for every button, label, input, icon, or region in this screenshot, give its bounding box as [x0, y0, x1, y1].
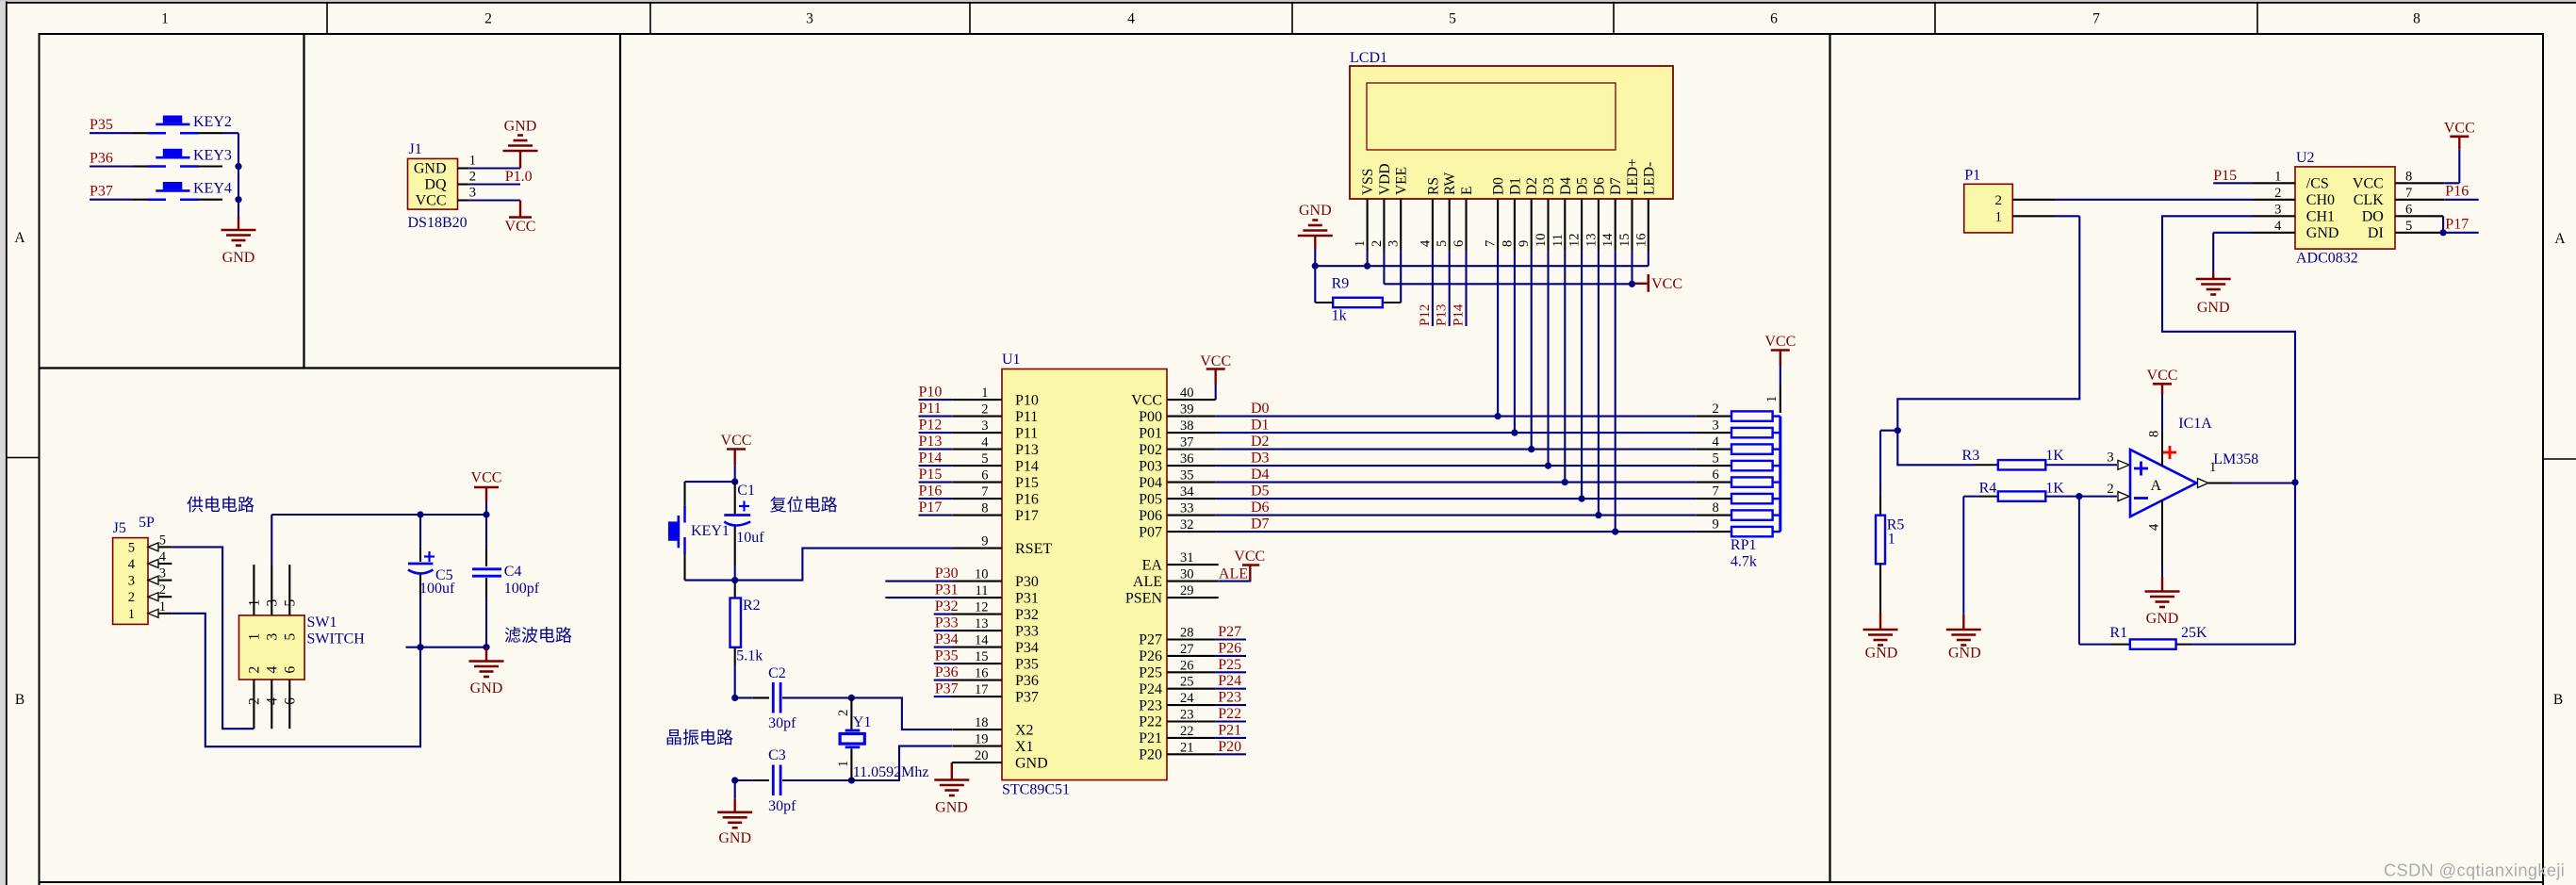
svg-text:5: 5 [1435, 240, 1450, 247]
svg-text:P24: P24 [1218, 673, 1241, 689]
node D2 [1251, 434, 1270, 450]
ground [1946, 497, 1981, 662]
svg-text:1: 1 [246, 599, 262, 607]
svg-text:KEY2: KEY2 [193, 114, 232, 130]
svg-text:1k: 1k [1332, 308, 1347, 324]
row band dividers [7, 458, 2576, 460]
R4 value [2045, 481, 2064, 497]
svg-text:4: 4 [981, 435, 989, 451]
R3 value [2045, 448, 2064, 464]
node P14 [1452, 251, 1467, 327]
capacitor C2 [735, 665, 852, 731]
svg-text:D1: D1 [1251, 418, 1270, 434]
svg-text:P24: P24 [1139, 681, 1162, 697]
svg-text:5: 5 [1449, 11, 1456, 27]
svg-text:/CS: /CS [2306, 176, 2329, 192]
pushbutton KEY3 [133, 148, 232, 167]
svg-text:P23: P23 [1218, 690, 1241, 706]
svg-text:P34: P34 [1015, 640, 1039, 656]
power VCC [2147, 368, 2178, 432]
svg-text:供电电路: 供电电路 [187, 496, 254, 515]
svg-text:D2: D2 [1251, 434, 1270, 450]
svg-text:14: 14 [1600, 233, 1616, 247]
svg-text:7: 7 [1484, 240, 1499, 247]
svg-text:GND: GND [470, 680, 503, 697]
svg-text:2: 2 [2107, 482, 2113, 497]
node P15 [919, 467, 953, 483]
svg-text:KEY4: KEY4 [193, 181, 232, 197]
svg-text:1: 1 [128, 607, 135, 622]
svg-text:4: 4 [2147, 523, 2162, 531]
node P31 [885, 582, 958, 598]
svg-text:P14: P14 [919, 451, 943, 467]
svg-text:1K: 1K [2045, 481, 2064, 497]
svg-text:D3: D3 [1251, 451, 1270, 467]
ground [934, 762, 969, 815]
node D3 [1251, 451, 1270, 467]
node P16 [2444, 184, 2479, 200]
svg-text:C4: C4 [504, 564, 522, 580]
svg-text:D7: D7 [1608, 177, 1624, 195]
wire R9 to VSS rail [1315, 266, 1333, 303]
svg-text:8: 8 [981, 501, 988, 516]
svg-text:3: 3 [264, 599, 280, 607]
svg-text:RP1: RP1 [1731, 537, 1757, 553]
svg-text:X2: X2 [1015, 722, 1034, 738]
LCD module LCD1 [1350, 50, 1673, 251]
node P35 [90, 117, 113, 133]
svg-text:6: 6 [1712, 467, 1718, 483]
svg-text:4: 4 [128, 557, 136, 572]
wire LCD D1 [1514, 251, 1516, 434]
wire CH1 to opamp output node [2162, 216, 2295, 644]
svg-text:34: 34 [1180, 484, 1194, 500]
svg-text:D2: D2 [1524, 177, 1540, 195]
junction [1528, 446, 1534, 452]
svg-text:D3: D3 [1541, 177, 1557, 195]
wire D2 [1216, 449, 1697, 451]
svg-text:EA: EA [1142, 557, 1163, 573]
svg-text:P16: P16 [919, 483, 943, 500]
node P12 [1418, 251, 1433, 327]
svg-text:DO: DO [2362, 209, 2384, 225]
svg-text:VCC: VCC [2353, 176, 2384, 192]
node D6 [1251, 500, 1270, 516]
svg-text:P04: P04 [1139, 475, 1162, 491]
svg-text:D7: D7 [1251, 516, 1270, 533]
capacitor C4 [472, 515, 540, 647]
svg-text:36: 36 [1180, 451, 1194, 467]
svg-text:P00: P00 [1139, 409, 1162, 425]
svg-text:3: 3 [1712, 418, 1718, 434]
svg-text:3: 3 [806, 11, 813, 27]
svg-text:P25: P25 [1139, 665, 1162, 681]
svg-text:GND: GND [1299, 203, 1332, 219]
svg-text:30: 30 [1180, 567, 1194, 582]
wire VEE to R9 [1383, 251, 1401, 303]
node P23 [1216, 690, 1246, 706]
junction [1511, 430, 1518, 436]
svg-text:31: 31 [1180, 550, 1194, 565]
wire DO to DI [2442, 216, 2444, 233]
svg-text:P27: P27 [1139, 632, 1162, 648]
svg-text:B: B [2553, 692, 2563, 708]
node P17 [919, 500, 953, 516]
svg-text:A: A [14, 230, 25, 246]
svg-text:KEY3: KEY3 [193, 148, 232, 164]
svg-text:100pf: 100pf [504, 581, 540, 597]
svg-text:5: 5 [282, 599, 298, 607]
svg-text:P17: P17 [919, 500, 943, 516]
svg-text:P07: P07 [1139, 524, 1162, 540]
wire D0 [1216, 416, 1697, 418]
svg-text:P30: P30 [935, 565, 959, 582]
svg-text:P37: P37 [935, 681, 959, 697]
svg-text:3: 3 [469, 186, 476, 201]
svg-text:27: 27 [1180, 642, 1194, 657]
svg-text:GND: GND [2306, 225, 2339, 241]
wire C3 to X1 [851, 746, 952, 780]
ground [222, 217, 256, 266]
svg-text:P33: P33 [935, 615, 959, 631]
wire P1 pin2 to CH0 [2055, 199, 2253, 201]
svg-text:29: 29 [1180, 583, 1194, 598]
svg-text:2: 2 [1995, 193, 2003, 208]
svg-text:GND: GND [1865, 646, 1898, 662]
IC U2 ADC0832 [2253, 150, 2444, 267]
svg-text:11: 11 [976, 583, 989, 598]
svg-text:15: 15 [1617, 234, 1633, 248]
column band dividers [327, 3, 2257, 34]
resistor R1 [2109, 625, 2175, 649]
svg-text:D6: D6 [1591, 177, 1607, 195]
svg-text:25: 25 [1180, 675, 1194, 690]
svg-text:P34: P34 [935, 631, 959, 647]
svg-text:D0: D0 [1491, 177, 1507, 195]
wire LCD D0 [1497, 251, 1499, 417]
svg-text:8: 8 [1712, 500, 1718, 516]
section divider keys/J1 [303, 34, 304, 369]
node P16 [919, 483, 953, 500]
junction [235, 163, 241, 170]
pushbutton KEY4 [133, 181, 232, 200]
wire D7 [1216, 531, 1697, 533]
power VCC [471, 470, 502, 516]
svg-text:GND: GND [1015, 755, 1048, 771]
svg-text:7: 7 [2405, 186, 2412, 201]
svg-text:4: 4 [1418, 239, 1433, 247]
junction [1595, 512, 1601, 518]
node P25 [1216, 657, 1246, 673]
ground [1863, 564, 1898, 661]
wire LCD D4 [1564, 251, 1566, 483]
node P32 [934, 598, 959, 615]
junction [731, 777, 738, 783]
svg-text:R4: R4 [1979, 481, 1997, 497]
svg-text:P1.0: P1.0 [505, 169, 533, 185]
svg-text:P12: P12 [919, 418, 943, 434]
Y1 value [853, 764, 929, 780]
svg-text:J5: J5 [113, 520, 126, 536]
junction [1579, 496, 1585, 502]
svg-text:1: 1 [1995, 209, 2003, 224]
svg-text:33: 33 [1180, 501, 1194, 516]
svg-text:P20: P20 [1218, 739, 1241, 755]
svg-text:35: 35 [1180, 468, 1194, 483]
node P35 [934, 648, 959, 664]
connector J1 [408, 141, 477, 231]
wire LCD D3 [1547, 251, 1549, 467]
svg-text:SWITCH: SWITCH [307, 631, 366, 647]
svg-text:5: 5 [282, 633, 298, 641]
svg-text:RW: RW [1442, 172, 1458, 195]
svg-text:VCC: VCC [471, 470, 502, 486]
svg-text:R9: R9 [1332, 276, 1350, 292]
svg-text:U2: U2 [2296, 150, 2315, 166]
wire R3 to pin3 [2045, 464, 2117, 466]
svg-text:VCC: VCC [416, 193, 447, 209]
svg-text:2: 2 [836, 710, 851, 716]
node P13 [919, 434, 953, 450]
svg-text:P35: P35 [90, 117, 113, 133]
svg-text:1: 1 [2274, 169, 2281, 184]
svg-text:D5: D5 [1251, 483, 1270, 500]
svg-text:3: 3 [128, 574, 135, 589]
svg-text:3: 3 [1386, 240, 1402, 247]
junction [1895, 427, 1901, 434]
ground [2196, 233, 2253, 316]
svg-text:16: 16 [1633, 234, 1649, 248]
svg-text:E: E [1459, 187, 1475, 195]
svg-text:1: 1 [1764, 396, 1780, 402]
svg-text:10: 10 [975, 567, 989, 582]
svg-text:CLK: CLK [2354, 192, 2384, 208]
svg-text:P26: P26 [1139, 648, 1162, 664]
node D4 [1251, 467, 1270, 483]
svg-text:20: 20 [975, 748, 989, 763]
svg-text:P11: P11 [1015, 425, 1038, 441]
IC U1 STC89C51 [952, 352, 1219, 798]
svg-text:8: 8 [2413, 11, 2420, 27]
svg-text:6: 6 [282, 697, 298, 705]
svg-text:GND: GND [504, 119, 537, 135]
wire D5 [1216, 498, 1697, 500]
junction [1364, 263, 1370, 270]
wire VSS rail [1315, 251, 1649, 267]
svg-text:4: 4 [1127, 11, 1135, 27]
svg-text:11: 11 [1551, 234, 1566, 247]
node P21 [1216, 722, 1246, 738]
svg-text:16: 16 [975, 666, 989, 681]
svg-text:2: 2 [246, 666, 262, 674]
switch SW1 [239, 565, 366, 729]
wire R1 to output node [2176, 644, 2295, 646]
svg-text:5.1k: 5.1k [736, 648, 763, 664]
R1 value [2181, 625, 2207, 641]
pushbutton KEY1 [668, 482, 730, 580]
wire P36 [90, 165, 133, 167]
node P30 [885, 565, 958, 582]
svg-text:19: 19 [975, 732, 989, 747]
junction [848, 777, 855, 783]
R5 value [1888, 532, 1895, 548]
svg-text:P26: P26 [1218, 640, 1241, 656]
svg-text:SW1: SW1 [307, 615, 337, 631]
svg-text:7: 7 [981, 484, 988, 500]
svg-text:P16: P16 [1015, 491, 1039, 507]
junction [848, 695, 855, 701]
junction [1312, 263, 1319, 270]
svg-text:D4: D4 [1251, 467, 1270, 483]
svg-text:J1: J1 [409, 141, 422, 157]
svg-text:5: 5 [1712, 451, 1718, 467]
capacitor C1 [724, 482, 764, 580]
svg-text:P15: P15 [919, 467, 943, 483]
svg-text:1: 1 [2209, 460, 2216, 475]
svg-text:P30: P30 [1015, 574, 1039, 590]
wire divider to R5 [1880, 431, 1897, 516]
svg-text:5: 5 [2405, 219, 2412, 234]
resistor R5 [1876, 516, 1904, 565]
svg-text:6: 6 [1452, 240, 1467, 247]
wire P37 [90, 199, 133, 201]
watermark [2384, 861, 2565, 880]
svg-text:9: 9 [1712, 517, 1718, 533]
svg-text:P31: P31 [935, 582, 959, 598]
svg-text:ALE: ALE [1133, 574, 1162, 590]
svg-text:P01: P01 [1139, 425, 1162, 441]
node P34 [934, 631, 959, 647]
svg-text:P10: P10 [1015, 392, 1039, 408]
svg-text:P33: P33 [1015, 623, 1039, 639]
junction [2440, 229, 2447, 236]
svg-text:23: 23 [1180, 708, 1194, 723]
svg-text:6: 6 [282, 666, 298, 674]
svg-text:21: 21 [1180, 740, 1194, 755]
svg-text:D4: D4 [1558, 177, 1574, 195]
svg-text:P36: P36 [1015, 673, 1039, 689]
svg-text:GND: GND [222, 250, 255, 266]
svg-text:D1: D1 [1507, 177, 1523, 195]
svg-text:12: 12 [1567, 234, 1583, 248]
svg-text:P35: P35 [935, 648, 959, 664]
svg-text:KEY1: KEY1 [691, 523, 730, 539]
svg-text:10uf: 10uf [736, 530, 764, 546]
svg-text:C3: C3 [768, 747, 786, 763]
node P24 [1216, 673, 1246, 689]
junction [483, 511, 489, 517]
svg-text:2: 2 [246, 697, 262, 705]
svg-text:P11: P11 [1015, 409, 1038, 425]
node P36 [934, 664, 959, 680]
svg-text:2: 2 [1370, 240, 1385, 247]
column numbers [161, 11, 2420, 27]
R2 value [736, 648, 763, 664]
svg-text:28: 28 [1180, 626, 1194, 641]
connector P1 [1964, 168, 2055, 233]
svg-text:2: 2 [981, 402, 988, 418]
svg-text:CH1: CH1 [2306, 209, 2335, 225]
svg-text:VEE: VEE [1394, 167, 1410, 195]
wire reset rail to RSET [685, 549, 953, 581]
svg-text:P15: P15 [1015, 475, 1039, 491]
svg-text:100uf: 100uf [419, 581, 455, 597]
svg-text:P37: P37 [1015, 689, 1039, 705]
svg-text:D0: D0 [1251, 401, 1270, 417]
svg-text:P32: P32 [935, 598, 959, 615]
svg-text:LED-: LED- [1641, 162, 1657, 195]
svg-text:VCC: VCC [2147, 368, 2178, 384]
junction [1629, 281, 1635, 287]
svg-text:4: 4 [1712, 434, 1719, 450]
svg-text:14: 14 [975, 633, 989, 648]
node P17 [2443, 217, 2479, 233]
junction [731, 577, 738, 583]
ground [2145, 565, 2180, 627]
svg-text:Y1: Y1 [853, 714, 872, 730]
svg-text:1: 1 [836, 761, 851, 767]
svg-text:P11: P11 [919, 401, 942, 417]
svg-text:2: 2 [128, 590, 135, 605]
wire ground rail [406, 647, 487, 648]
section divider vertical left [619, 34, 621, 882]
svg-text:18: 18 [975, 715, 989, 730]
svg-text:4: 4 [159, 549, 167, 565]
junction [1612, 529, 1618, 535]
svg-text:P15: P15 [2213, 168, 2237, 184]
RP1 value [1731, 554, 1757, 570]
svg-text:P22: P22 [1218, 706, 1241, 722]
svg-text:C1: C1 [737, 483, 755, 499]
svg-text:4.7k: 4.7k [1731, 554, 1757, 570]
node P27 [1216, 624, 1246, 640]
svg-text:DI: DI [2368, 225, 2384, 241]
svg-text:P1: P1 [1964, 168, 1980, 184]
svg-text:GND: GND [1948, 646, 1981, 662]
svg-text:P14: P14 [1015, 458, 1039, 474]
svg-text:DS18B20: DS18B20 [408, 215, 468, 231]
wire opamp output [2208, 460, 2295, 483]
node ALE [1219, 566, 1251, 582]
junction [2076, 493, 2082, 500]
row letters [14, 230, 2566, 708]
ground [1298, 203, 1333, 266]
svg-text:RSET: RSET [1015, 541, 1052, 557]
text filter circuit [504, 627, 572, 646]
svg-text:P35: P35 [1015, 656, 1039, 672]
svg-text:P16: P16 [2445, 184, 2469, 200]
svg-text:11.0592Mhz: 11.0592Mhz [853, 764, 929, 780]
wire J5 pin1 to C5 rail [172, 614, 420, 746]
junction [483, 644, 489, 650]
svg-text:3: 3 [981, 418, 988, 434]
svg-text:3: 3 [264, 633, 280, 641]
svg-text:P27: P27 [1218, 624, 1241, 640]
node P33 [934, 615, 959, 631]
svg-text:6: 6 [981, 468, 988, 483]
junction [1562, 479, 1568, 485]
wire LCD D6 [1598, 251, 1600, 516]
svg-text:P36: P36 [935, 664, 959, 680]
svg-text:P23: P23 [1139, 697, 1162, 713]
svg-text:B: B [15, 692, 25, 708]
svg-text:P06: P06 [1139, 508, 1162, 524]
svg-text:1: 1 [1888, 532, 1895, 548]
svg-text:C2: C2 [768, 665, 786, 681]
node P14 [919, 451, 953, 467]
section divider vertical right [1829, 34, 1830, 882]
svg-text:3: 3 [2274, 202, 2281, 217]
